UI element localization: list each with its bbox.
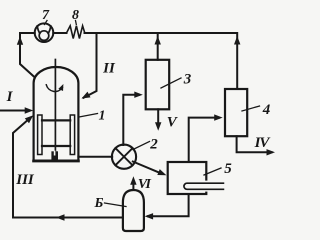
- blower 7: [35, 23, 54, 42]
- wire: vessel1 outlet up to blower (left riser): [20, 33, 35, 77]
- bottom bearing: [51, 151, 58, 160]
- stirrer shaft: [54, 60, 56, 152]
- label 3 leader: [161, 78, 181, 88]
- apparatus 4: [225, 89, 247, 136]
- reactor 1 (dome vessel): [34, 67, 79, 161]
- wire: exchanger 5 vapour to apparatus 4: [189, 118, 219, 162]
- wire: reactor bottom to mixer 2: [78, 156, 112, 158]
- apparatus 3: [146, 60, 170, 110]
- anchor frame: top crossbar: [42, 119, 70, 121]
- label 7 leader: [45, 21, 48, 25]
- anchor frame: left bar: [38, 115, 42, 155]
- svg-text:2: 2: [149, 137, 158, 153]
- anchor frame: right bar: [70, 115, 74, 155]
- arrow up into header at column 4 riser: [234, 36, 240, 45]
- arrow VI vessel B to mixer: [132, 184, 134, 189]
- wire: mixer 2 to exchanger 5: [133, 162, 160, 173]
- wire II: header down into reactor dome: [84, 33, 97, 98]
- bottom return pipe: [13, 217, 123, 219]
- svg-text:Б: Б: [94, 196, 104, 211]
- svg-text:3: 3: [183, 71, 192, 87]
- wire: exchanger 5 bottom to vessel B: [148, 194, 189, 216]
- wire: blower to heater: [53, 32, 66, 34]
- label 1 leader: [79, 114, 98, 118]
- heat exchanger 5: [168, 162, 207, 194]
- recycle III riser with arrow into reactor: [13, 120, 28, 218]
- svg-text:I: I: [6, 89, 14, 105]
- outlet V arrow: [157, 109, 159, 122]
- svg-text:5: 5: [224, 161, 232, 177]
- heater 8 (zigzag): [67, 26, 85, 39]
- arrow II into dome: [82, 92, 91, 99]
- svg-text:4: 4: [262, 102, 271, 118]
- label 8 leader: [75, 21, 78, 25]
- svg-text:1: 1: [99, 109, 106, 124]
- label 5 leader: [204, 168, 221, 175]
- arrow up on left riser: [17, 36, 23, 45]
- svg-text:7: 7: [42, 8, 50, 23]
- wire: apparatus 3 top riser: [157, 33, 159, 60]
- U-tube coil: [184, 183, 223, 189]
- wire: mixer 2 up into apparatus 3: [123, 95, 139, 145]
- mixer 2 (circle with X): [112, 145, 136, 169]
- vessel B (dome tank): [123, 190, 144, 231]
- svg-text:III: III: [15, 172, 35, 188]
- outlet IV: [237, 136, 272, 152]
- label 4 leader: [242, 106, 260, 111]
- svg-text:8: 8: [72, 8, 79, 23]
- rotation arc: [46, 85, 62, 92]
- wire: top header to column 4: [85, 33, 238, 89]
- label B leader: [105, 203, 127, 207]
- label 2 leader: [133, 142, 150, 150]
- svg-text:II: II: [102, 60, 116, 76]
- feed I arrow: [0, 110, 25, 112]
- vessel bottom plate: [34, 160, 79, 163]
- anchor frame: bottom crossbar: [42, 145, 70, 147]
